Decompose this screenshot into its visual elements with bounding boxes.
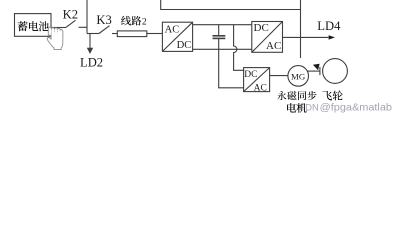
svg-text:DC: DC	[177, 40, 192, 51]
svg-text:AC: AC	[266, 40, 281, 52]
svg-text:LD2: LD2	[80, 55, 103, 69]
svg-text:DC: DC	[244, 70, 257, 80]
svg-text:AC: AC	[254, 83, 267, 93]
svg-text:K2: K2	[63, 8, 78, 22]
svg-text:AC: AC	[165, 25, 180, 36]
svg-text:K3: K3	[96, 13, 111, 27]
svg-text:LD4: LD4	[317, 19, 341, 33]
svg-text:@fpga&matlab: @fpga&matlab	[320, 102, 393, 113]
svg-text:DC: DC	[254, 22, 269, 34]
svg-text:2: 2	[142, 17, 147, 28]
svg-text:MG: MG	[291, 71, 306, 81]
